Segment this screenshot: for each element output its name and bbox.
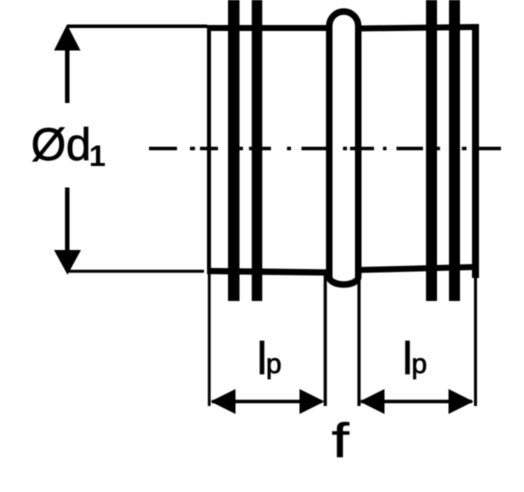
svg-text:1: 1 [89, 140, 106, 173]
svg-text:Ød: Ød [31, 119, 91, 170]
svg-text:p: p [266, 348, 282, 379]
svg-text:p: p [412, 348, 428, 379]
svg-text:f: f [332, 413, 350, 467]
